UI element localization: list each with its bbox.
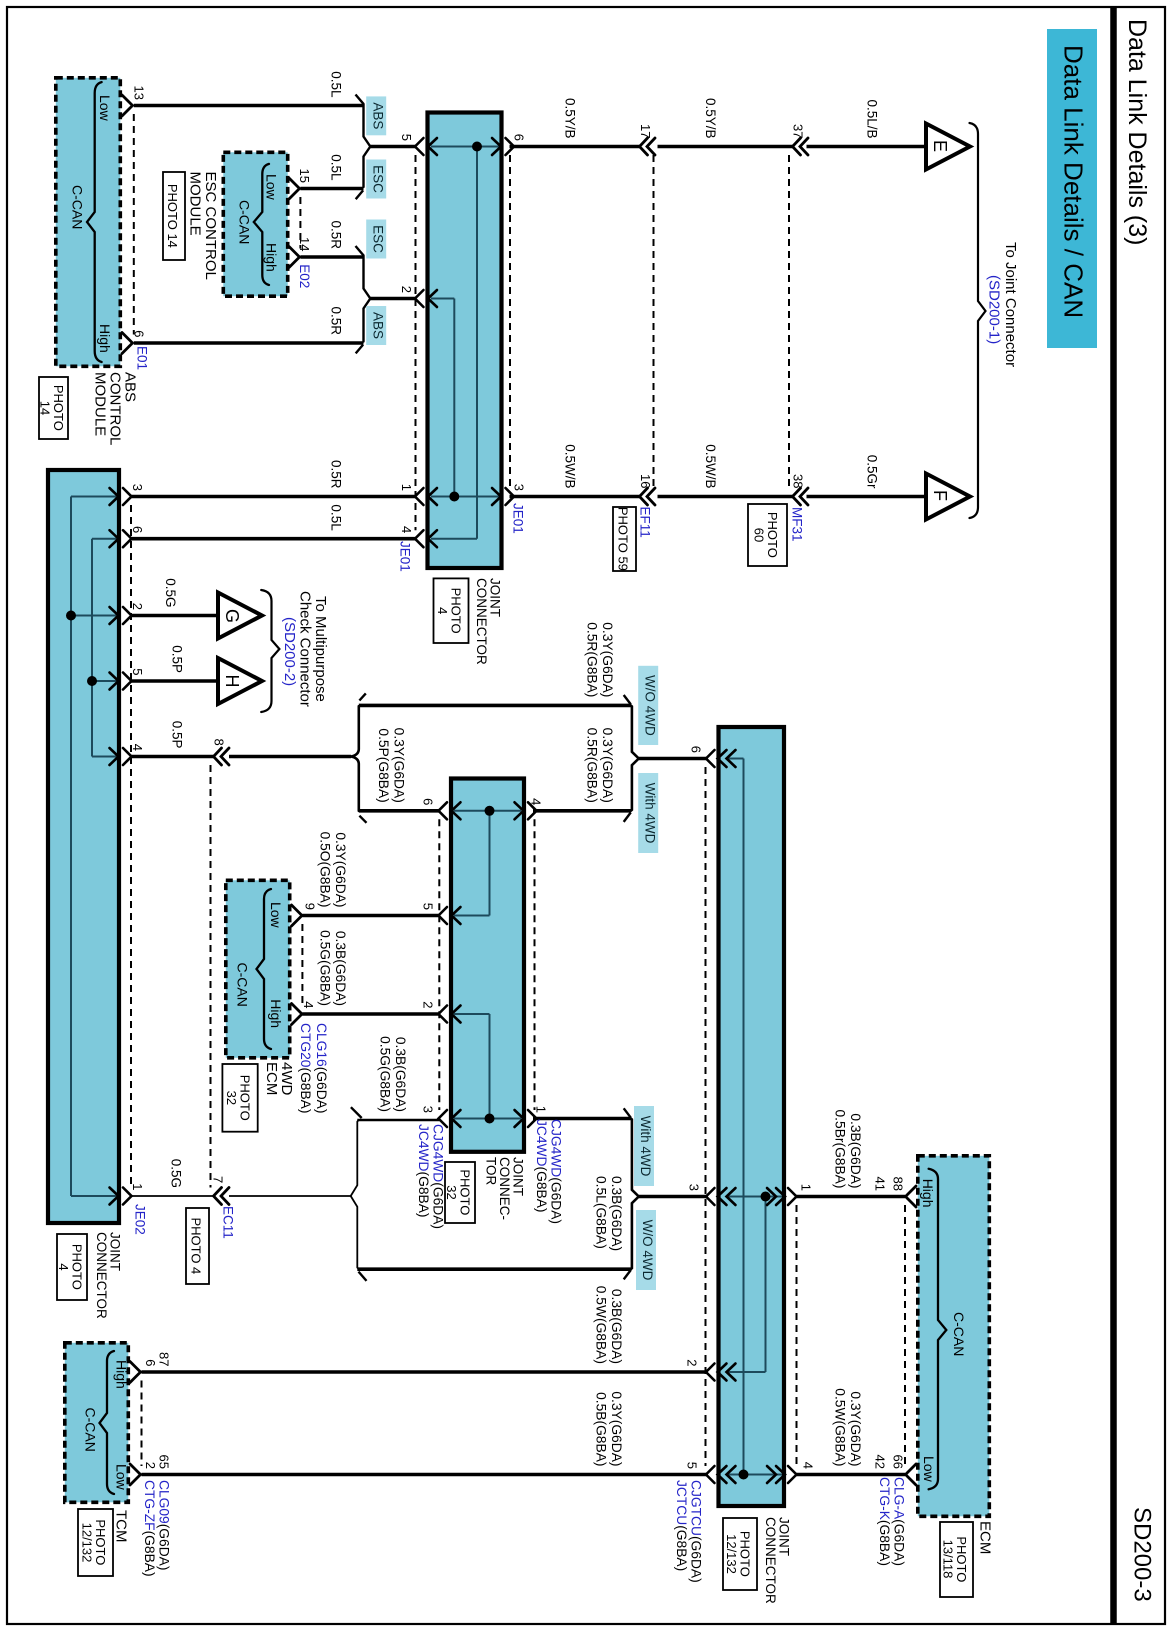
svg-text:G: G xyxy=(222,609,242,623)
svg-text:0.5R(G8BA): 0.5R(G8BA) xyxy=(585,728,600,803)
svg-text:0.5Br(G8BA): 0.5Br(G8BA) xyxy=(833,1110,848,1189)
svg-text:0.3B(G6DA): 0.3B(G6DA) xyxy=(609,1289,624,1364)
svg-text:H: H xyxy=(222,675,242,688)
svg-text:High: High xyxy=(97,324,113,353)
svg-text:0.5G(G8BA): 0.5G(G8BA) xyxy=(378,1036,393,1112)
svg-text:To Multipurpose: To Multipurpose xyxy=(312,596,329,702)
svg-text:JC4WD(G8BA): JC4WD(G8BA) xyxy=(416,1124,431,1218)
svg-text:0.5P: 0.5P xyxy=(170,645,185,673)
svg-text:(SD200-1): (SD200-1) xyxy=(985,275,1002,344)
svg-text:13: 13 xyxy=(132,86,147,100)
svg-text:CONNECTOR: CONNECTOR xyxy=(474,578,489,665)
svg-text:3: 3 xyxy=(687,1184,702,1191)
svg-text:JCTCU(G8BA): JCTCU(G8BA) xyxy=(674,1480,689,1571)
svg-text:6: 6 xyxy=(420,798,435,805)
svg-text:C-CAN: C-CAN xyxy=(69,185,85,229)
svg-text:6: 6 xyxy=(132,330,147,337)
svg-text:0.5G(G8BA): 0.5G(G8BA) xyxy=(318,930,333,1006)
svg-text:0.5O(G8BA): 0.5O(G8BA) xyxy=(318,832,333,908)
svg-text:0.5G: 0.5G xyxy=(169,1159,184,1188)
svg-text:0.3B(G6DA): 0.3B(G6DA) xyxy=(609,1176,624,1251)
svg-text:F: F xyxy=(930,490,950,501)
svg-text:0.5L: 0.5L xyxy=(329,154,344,181)
svg-text:ABS: ABS xyxy=(370,312,385,339)
svg-text:EC11: EC11 xyxy=(220,1206,235,1239)
svg-text:37: 37 xyxy=(791,124,806,138)
svg-text:5: 5 xyxy=(685,1462,700,1469)
svg-text:42: 42 xyxy=(873,1455,888,1469)
svg-text:CLG-A(G6DA): CLG-A(G6DA) xyxy=(891,1477,906,1566)
svg-text:ECM: ECM xyxy=(976,1521,993,1554)
svg-text:PHOTO 4: PHOTO 4 xyxy=(188,1217,203,1274)
svg-text:JC4WD(G8BA): JC4WD(G8BA) xyxy=(534,1119,549,1213)
svg-text:0.5W(G8BA): 0.5W(G8BA) xyxy=(594,1286,609,1364)
svg-text:CONNECTOR: CONNECTOR xyxy=(763,1517,778,1604)
svg-text:2: 2 xyxy=(143,1462,158,1469)
svg-text:MODULE: MODULE xyxy=(187,172,204,236)
svg-text:Low: Low xyxy=(263,174,279,201)
svg-text:0.5Y/B: 0.5Y/B xyxy=(563,98,578,139)
svg-text:0.3B(G6DA): 0.3B(G6DA) xyxy=(393,1037,408,1112)
svg-text:CJG4WD(G6DA): CJG4WD(G6DA) xyxy=(548,1119,563,1224)
svg-text:12/132: 12/132 xyxy=(724,1534,739,1574)
svg-text:MF31: MF31 xyxy=(790,507,805,542)
svg-text:1: 1 xyxy=(534,1106,549,1113)
svg-text:TOR: TOR xyxy=(483,1157,498,1186)
svg-text:8: 8 xyxy=(211,739,226,746)
svg-text:4: 4 xyxy=(130,744,145,751)
svg-text:1: 1 xyxy=(799,1184,814,1191)
svg-text:4: 4 xyxy=(301,1001,316,1008)
svg-text:CJG4WD(G6DA): CJG4WD(G6DA) xyxy=(430,1124,445,1229)
svg-text:0.3Y(G6DA): 0.3Y(G6DA) xyxy=(600,622,615,697)
svg-text:14: 14 xyxy=(297,237,312,251)
svg-text:4: 4 xyxy=(399,526,414,533)
svg-text:0.5Gr: 0.5Gr xyxy=(864,455,879,489)
svg-text:E01: E01 xyxy=(134,346,149,370)
svg-text:0.5W/B: 0.5W/B xyxy=(563,444,578,488)
svg-text:W/O 4WD: W/O 4WD xyxy=(640,1220,655,1281)
svg-text:0.3B(G6DA): 0.3B(G6DA) xyxy=(333,931,348,1006)
svg-text:14: 14 xyxy=(38,401,53,415)
svg-text:CONNECTOR: CONNECTOR xyxy=(94,1232,109,1319)
svg-text:0.5R(G8BA): 0.5R(G8BA) xyxy=(585,622,600,697)
svg-text:0.3B(G6DA): 0.3B(G6DA) xyxy=(848,1113,863,1188)
svg-text:66: 66 xyxy=(891,1455,906,1469)
svg-text:1: 1 xyxy=(399,484,414,491)
svg-text:0.5B(G8BA): 0.5B(G8BA) xyxy=(594,1392,609,1466)
svg-text:17: 17 xyxy=(638,124,653,138)
svg-text:CLG09(G6DA): CLG09(G6DA) xyxy=(156,1480,171,1570)
svg-text:6: 6 xyxy=(130,526,145,533)
svg-text:Low: Low xyxy=(268,902,284,929)
svg-text:Low: Low xyxy=(114,1464,130,1491)
svg-text:CTG20(G8BA): CTG20(G8BA) xyxy=(298,1023,313,1113)
svg-text:W/O 4WD: W/O 4WD xyxy=(642,675,657,736)
svg-text:0.5P: 0.5P xyxy=(170,721,185,749)
svg-text:41: 41 xyxy=(873,1177,888,1191)
svg-text:16: 16 xyxy=(638,474,653,488)
svg-text:ESC CONTROL: ESC CONTROL xyxy=(202,172,219,280)
svg-text:0.5G: 0.5G xyxy=(163,578,178,607)
svg-text:38: 38 xyxy=(791,474,806,488)
svg-text:32: 32 xyxy=(224,1091,239,1105)
svg-text:12/132: 12/132 xyxy=(80,1523,95,1563)
svg-text:5: 5 xyxy=(420,903,435,910)
svg-text:With 4WD: With 4WD xyxy=(642,783,657,844)
svg-text:To Joint Connector: To Joint Connector xyxy=(1002,242,1019,367)
svg-text:2: 2 xyxy=(130,603,145,610)
svg-text:JE01: JE01 xyxy=(510,503,525,534)
svg-text:15: 15 xyxy=(297,169,312,183)
svg-text:88: 88 xyxy=(891,1177,906,1191)
svg-text:CLG16(G6DA): CLG16(G6DA) xyxy=(314,1023,329,1113)
svg-text:(SD200-2): (SD200-2) xyxy=(281,617,298,686)
svg-text:With 4WD: With 4WD xyxy=(638,1116,653,1177)
svg-text:C-CAN: C-CAN xyxy=(236,200,252,244)
svg-text:3: 3 xyxy=(511,484,526,491)
svg-text:EF11: EF11 xyxy=(637,507,652,538)
svg-text:4: 4 xyxy=(529,798,544,805)
svg-text:TCM: TCM xyxy=(112,1510,129,1543)
svg-text:0.5Y/B: 0.5Y/B xyxy=(703,98,718,139)
svg-text:0.5W(G8BA): 0.5W(G8BA) xyxy=(833,1388,848,1466)
svg-text:0.5R: 0.5R xyxy=(329,220,344,249)
svg-text:ECM: ECM xyxy=(263,1062,280,1095)
svg-text:0.5L: 0.5L xyxy=(329,71,344,98)
svg-text:JE01: JE01 xyxy=(397,541,412,572)
svg-text:Low: Low xyxy=(97,95,113,122)
svg-text:PHOTO 59: PHOTO 59 xyxy=(615,507,630,571)
svg-text:C-CAN: C-CAN xyxy=(951,1312,967,1356)
svg-text:E: E xyxy=(930,140,950,152)
svg-text:4: 4 xyxy=(801,1462,816,1469)
svg-text:3: 3 xyxy=(420,1106,435,1113)
svg-text:JE02: JE02 xyxy=(132,1204,147,1235)
svg-text:9: 9 xyxy=(303,903,318,910)
svg-text:2: 2 xyxy=(399,286,414,293)
svg-text:PHOTO 14: PHOTO 14 xyxy=(165,184,180,248)
svg-text:0.3Y(G6DA): 0.3Y(G6DA) xyxy=(391,728,406,803)
svg-text:Check Connector: Check Connector xyxy=(297,591,314,707)
svg-text:0.3Y(G6DA): 0.3Y(G6DA) xyxy=(333,832,348,907)
svg-text:0.3Y(G6DA): 0.3Y(G6DA) xyxy=(609,1391,624,1466)
svg-text:0.5L(G8BA): 0.5L(G8BA) xyxy=(594,1176,609,1249)
svg-text:7: 7 xyxy=(210,1176,225,1183)
svg-text:6: 6 xyxy=(511,134,526,141)
svg-text:0.5R: 0.5R xyxy=(329,306,344,335)
svg-text:CJGTCU(G6DA): CJGTCU(G6DA) xyxy=(688,1480,703,1583)
svg-text:0.5L: 0.5L xyxy=(329,504,344,531)
svg-text:2: 2 xyxy=(685,1359,700,1366)
svg-text:C-CAN: C-CAN xyxy=(83,1408,99,1452)
svg-text:1: 1 xyxy=(130,1183,145,1190)
svg-text:MODULE: MODULE xyxy=(91,372,108,436)
svg-text:High: High xyxy=(263,243,279,272)
svg-text:0.5R: 0.5R xyxy=(329,460,344,489)
svg-text:0.3Y(G6DA): 0.3Y(G6DA) xyxy=(600,728,615,803)
svg-text:Low: Low xyxy=(921,1456,937,1483)
svg-text:0.5W/B: 0.5W/B xyxy=(703,444,718,488)
svg-text:0.5L/B: 0.5L/B xyxy=(864,99,879,138)
svg-text:5: 5 xyxy=(130,668,145,675)
svg-text:CTG-ZF(G8BA): CTG-ZF(G8BA) xyxy=(142,1480,157,1577)
svg-text:2: 2 xyxy=(420,1001,435,1008)
svg-text:0.3Y(G6DA): 0.3Y(G6DA) xyxy=(848,1391,863,1466)
svg-text:ESC: ESC xyxy=(370,225,385,253)
svg-text:High: High xyxy=(920,1179,936,1208)
svg-text:Data Link Details (3): Data Link Details (3) xyxy=(1123,19,1151,245)
svg-text:CTG-K(G8BA): CTG-K(G8BA) xyxy=(877,1477,892,1566)
svg-text:60: 60 xyxy=(752,528,767,542)
svg-text:ABS: ABS xyxy=(370,102,385,129)
svg-text:6: 6 xyxy=(143,1359,158,1366)
svg-text:E02: E02 xyxy=(297,264,312,288)
svg-text:High: High xyxy=(268,999,284,1028)
svg-text:SD200-3: SD200-3 xyxy=(1129,1507,1156,1602)
svg-text:4: 4 xyxy=(56,1263,71,1270)
svg-text:0.5P(G8BA): 0.5P(G8BA) xyxy=(376,728,391,802)
svg-text:High: High xyxy=(114,1360,130,1389)
svg-text:4: 4 xyxy=(435,607,450,614)
svg-text:Data Link Details / CAN: Data Link Details / CAN xyxy=(1058,45,1088,318)
svg-text:32: 32 xyxy=(444,1185,459,1199)
svg-text:13/118: 13/118 xyxy=(941,1540,956,1579)
svg-text:3: 3 xyxy=(130,484,145,491)
svg-text:C-CAN: C-CAN xyxy=(235,963,251,1007)
svg-text:6: 6 xyxy=(689,746,704,753)
svg-text:ESC: ESC xyxy=(370,165,385,193)
svg-text:5: 5 xyxy=(399,134,414,141)
